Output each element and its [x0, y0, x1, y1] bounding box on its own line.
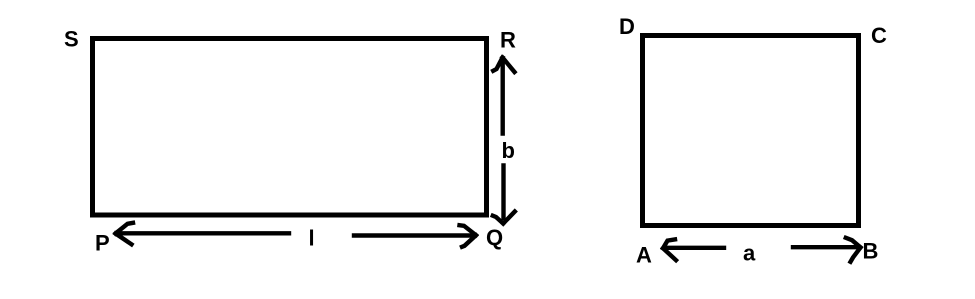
svg-text:D: D	[619, 14, 635, 39]
svg-text:b: b	[502, 138, 515, 163]
svg-text:Q: Q	[486, 225, 503, 250]
svg-text:l: l	[309, 226, 315, 251]
svg-text:S: S	[64, 27, 79, 52]
svg-text:a: a	[743, 241, 756, 266]
svg-text:B: B	[863, 238, 879, 263]
svg-text:R: R	[500, 28, 516, 53]
svg-text:P: P	[95, 231, 110, 256]
svg-text:C: C	[871, 23, 887, 48]
svg-text:A: A	[636, 242, 652, 267]
